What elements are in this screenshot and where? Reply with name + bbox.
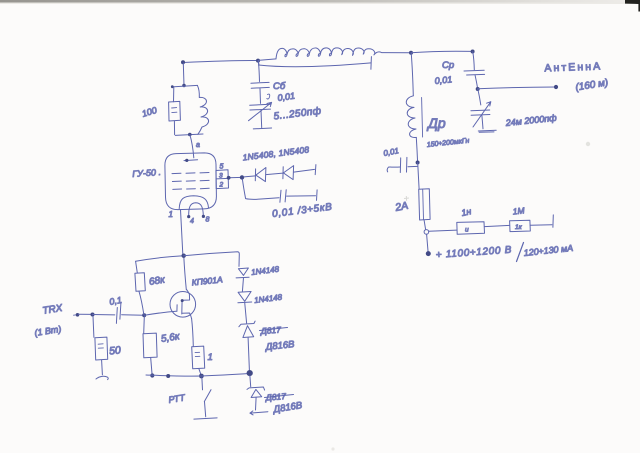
diode D4 1N4148 [238, 292, 251, 302]
heater pin 8 dot [202, 215, 205, 218]
svg-text:1: 1 [208, 352, 213, 363]
wire C1 to node L [122, 314, 144, 317]
lead with hook [387, 167, 400, 172]
resistor R-source (1) body [192, 346, 205, 369]
zener VD1 bar [239, 321, 255, 327]
wire D4 to zener VD1 [245, 303, 247, 324]
wire node I down to C-ant [478, 89, 481, 105]
svg-text:4: 4 [190, 218, 194, 225]
switch PTT stub [201, 378, 204, 390]
wire node F to capacitor 0,01 [408, 165, 417, 167]
terminal bar (C-tune) [253, 127, 271, 130]
node C (screen node) [240, 175, 244, 179]
wire VD2 down [255, 397, 258, 410]
wire 5,6k to bus [151, 358, 152, 375]
resistor R-5,6k body [143, 333, 157, 358]
node E (junction dot) [471, 50, 475, 54]
transistor Q1 KP901A body circle [170, 292, 196, 318]
svg-text:Ср: Ср [442, 60, 454, 71]
inductor L1 (tank coil) [276, 48, 382, 59]
wire node D down to choke [411, 53, 413, 96]
svg-text:ГУ-50 .: ГУ-50 . [132, 167, 161, 179]
Q1 drain stub dot [181, 299, 184, 302]
resistor R1 body [457, 222, 485, 235]
svg-text:2: 2 [219, 182, 224, 189]
resistor R2 body [510, 220, 531, 231]
svg-text:50: 50 [109, 344, 122, 357]
wire D1-D2 [266, 173, 283, 175]
inductor Dr (choke) [406, 96, 416, 138]
terminal bar (supply row) [552, 215, 554, 227]
wire Cb to C-tune [259, 89, 262, 104]
switch PTT lever [204, 390, 211, 402]
input terminal [76, 313, 80, 317]
wire D2 to end terminal [294, 169, 315, 172]
capacitor C1 plates [116, 303, 121, 323]
node A (junction dot) [181, 60, 185, 64]
wire node G down to supply [427, 234, 429, 252]
switch PTT ground bar [194, 418, 217, 419]
Q1 source stub [182, 313, 192, 319]
tube V1 heater loop pin 4 [189, 203, 204, 217]
wire: node C down and right to cap [242, 179, 279, 199]
slash [517, 243, 524, 262]
wire node E down to Cp [473, 52, 475, 70]
node P (junction blob) [247, 370, 253, 376]
svg-text:Сб: Сб [273, 81, 286, 92]
node B (junction dot) [256, 59, 260, 63]
capacitor Cp plates [464, 70, 485, 75]
wire node K down to R-50 [92, 316, 95, 337]
node L (gate node dot) [142, 313, 146, 317]
diode D3 1N4148 [238, 268, 248, 275]
node G (open circle) [424, 230, 429, 235]
wire C-tune down [260, 110, 263, 127]
tap tick [370, 57, 373, 70]
faint plus mark [404, 196, 409, 201]
scanner edge top [0, 0, 640, 3]
tube V1 cathode arch [179, 196, 208, 209]
terminal bar with arrow [250, 411, 268, 415]
wire node F down to fuse [418, 163, 419, 189]
scanner dark corner top-right [625, 0, 640, 12]
wire: top rail left end down to 68k [136, 261, 138, 272]
resistor R-68k body [135, 273, 145, 292]
capacitor C-0,01 (left of choke) [400, 157, 407, 172]
wire 68k down to node L [139, 291, 144, 315]
switch PTT lower lead [205, 402, 206, 417]
svg-text:1н: 1н [460, 206, 472, 218]
zener VD2 bar [247, 387, 265, 390]
wire: anode lead down to tube [190, 135, 194, 158]
wire: suppressor bottom bar [175, 134, 203, 135]
resistor R-anode lead top [173, 87, 175, 102]
wire: top bus from node A to node B [183, 60, 258, 62]
svg-text:0,01: 0,01 [434, 74, 452, 86]
terminal bar below C-ant [478, 130, 496, 132]
node D (junction dot) [409, 51, 413, 55]
tube V1 anode bar [184, 159, 198, 162]
C-tune arrow [249, 102, 272, 120]
wire R1 to R2 [485, 225, 510, 226]
resistor R-50 body [95, 337, 108, 360]
variable capacitor C-ant plates [471, 110, 490, 115]
wire R2 to terminal [530, 224, 552, 227]
node O (bus junction dot) [199, 374, 204, 379]
svg-text:1: 1 [169, 210, 173, 219]
wire node P to zener VD2 [249, 376, 252, 387]
ground hook (R-50) [96, 376, 108, 379]
wire fuse to node G [424, 220, 426, 229]
inductor L-anode (parallel with 100) [198, 86, 209, 135]
node F (junction dot) [416, 161, 420, 165]
svg-text:и: и [465, 227, 469, 234]
svg-text:1к: 1к [515, 224, 523, 231]
wire node L down to 5,6k [143, 317, 146, 334]
wire: ground bus [146, 373, 251, 376]
wire R-50 to ground [101, 360, 104, 375]
svg-text:1М: 1М [512, 205, 526, 216]
node I (junction dot) [476, 87, 480, 91]
wire into coil [258, 59, 276, 61]
antenna terminal dot [554, 85, 558, 89]
wire: cathode lead down [181, 210, 183, 254]
bus junction dot [166, 374, 170, 378]
resistor R-anode lead bottom [173, 121, 175, 135]
wire: node A down to RL suppressor top [182, 63, 185, 86]
variable capacitor C-tune plates [250, 104, 271, 110]
wire: suppressor top bar [172, 85, 198, 87]
capacitor C-screen 0,01/3-5kV [280, 190, 286, 203]
wire: node B down stub [257, 61, 260, 65]
Q1 channel bar [181, 300, 183, 314]
wire: source lead down [192, 319, 194, 347]
svg-text:8: 8 [206, 217, 210, 224]
node: suppressor top junction [182, 84, 186, 88]
capacitor Cb plates [251, 82, 269, 88]
wire node B down to Cb [258, 61, 259, 82]
squiggle mark [267, 94, 270, 99]
variable capacitor arrow [473, 102, 491, 127]
node N (drain junction dot) [182, 254, 186, 258]
wire: top rail node N to chain corner [184, 252, 240, 267]
wire node K to C1 [93, 314, 115, 316]
svg-text:3: 3 [219, 173, 223, 180]
terminal bar (cap row) [316, 190, 319, 201]
zener VD1 triangle [243, 326, 254, 338]
terminal bar (diode row) [314, 165, 317, 175]
Q1 gate bar [176, 305, 178, 312]
tube V1 grid dashes [172, 173, 209, 174]
faint pencil smudge [586, 142, 590, 146]
wire coil to node D [382, 52, 411, 54]
node M1 (bus junction dot) [150, 373, 154, 377]
wire node G to resistor R1 [429, 230, 457, 231]
wire choke to node F [416, 138, 417, 163]
wire: antenna lead [478, 87, 556, 89]
wire D3 to D4 [242, 278, 243, 292]
wire to diode D1 [244, 176, 255, 177]
wire: screen box to node C [229, 176, 243, 178]
Q1 drain stub [182, 290, 190, 301]
zener VD2 triangle [251, 389, 262, 397]
tube screen pins box (5,3,2) [216, 170, 229, 189]
diode D2 1N5408 [282, 167, 284, 179]
resistor R-anode (100) body [169, 101, 181, 121]
wire: coil tap line [259, 63, 372, 67]
node K (junction dot) [91, 313, 95, 317]
wire VD1 to node P [248, 338, 249, 371]
wire Cp to node I [475, 75, 478, 89]
wire node D to node E [411, 51, 473, 52]
svg-text:Др: Др [426, 115, 446, 131]
wire: gate lead [144, 311, 176, 315]
fuse FU1 2A body [419, 189, 430, 220]
wire cap to end terminal [287, 195, 316, 197]
faint smudge bottom [331, 447, 334, 450]
wire R-source to bus [199, 369, 201, 375]
wire: top rail 68k to node N [136, 256, 184, 261]
diode D1 1N5408 [254, 169, 256, 181]
wire below C-ant [482, 116, 483, 129]
svg-text:5: 5 [220, 164, 224, 171]
tube V1 (GU-50) envelope [165, 153, 217, 210]
supply terminal dot [426, 251, 431, 256]
wire drain up to node N [184, 257, 187, 290]
svg-text:АнтЕннА: АнтЕннА [544, 60, 602, 74]
svg-text:а: а [196, 142, 200, 149]
wire terminal to node K [79, 313, 93, 315]
